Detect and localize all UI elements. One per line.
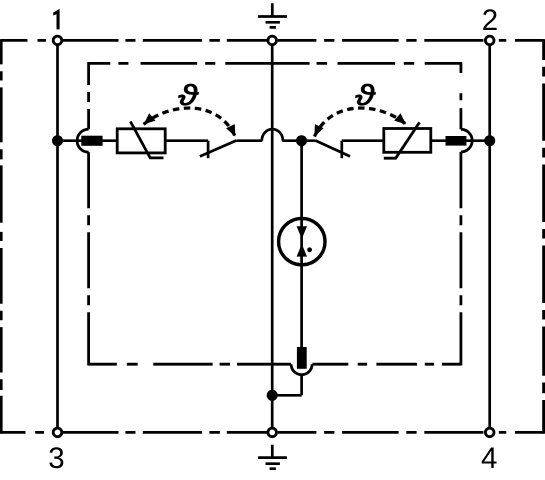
wire: right conductor from terminal 2 to terminal 4	[488, 45, 491, 428]
junction dot node 2 rail	[484, 135, 495, 146]
inner module boundary top edge (dash-dot)	[89, 62, 461, 65]
wire: gas discharge tube branch vertical	[300, 141, 303, 396]
varistor right body	[384, 129, 431, 153]
terminal 2 circle	[485, 36, 494, 45]
earth symbol top	[258, 3, 287, 27]
arrowhead right arc left end	[314, 124, 323, 137]
arrowhead left arc right end	[226, 124, 235, 137]
wire: varistor to switch fixed contact	[165, 139, 208, 142]
varistor left body	[117, 129, 165, 153]
arrowhead left arc left end	[144, 113, 156, 124]
gas discharge tube gas dot	[307, 247, 312, 252]
switch fixed contact stub left	[207, 141, 210, 159]
wire: main rail left section (node 1 to varistor)	[58, 139, 118, 142]
terminal 4 circle	[485, 428, 494, 437]
switch fixed contact stub right	[340, 141, 343, 159]
plug contact bar bottom	[297, 347, 307, 369]
svg-text:3: 3	[48, 442, 64, 475]
outer boundary bottom edge (dash-dot)	[1, 431, 543, 434]
svg-text:ϑ: ϑ	[178, 79, 199, 111]
svg-text:2: 2	[482, 4, 498, 37]
terminal 1 circle	[53, 36, 62, 45]
outer boundary top edge (dash-dot)	[1, 39, 543, 42]
plug contact bar left	[81, 136, 102, 146]
earth node circle bottom	[268, 428, 277, 437]
outer boundary left edge (dash-dot)	[0, 39, 3, 434]
plug-in disconnection arc left (border hop over wire)	[77, 129, 89, 152]
earth node circle top	[268, 36, 277, 45]
varistor left diagonal with tail	[130, 122, 163, 158]
inner module boundary bottom edge (dash-dot) with plug hop gap	[89, 363, 461, 366]
gas discharge tube circle	[279, 218, 325, 264]
wire hop over center conductor	[262, 129, 283, 141]
plug-in disconnection arc bottom (border hop over wire)	[291, 364, 312, 375]
wire: center PE conductor from top earth to bottom earth	[271, 45, 274, 428]
gas discharge tube lower arrow	[297, 244, 307, 257]
gas discharge tube upper arrow	[297, 226, 307, 239]
wire: left switch pivot to rail hop	[236, 139, 262, 142]
junction dot bottom branch on PE conductor	[267, 390, 278, 401]
wire: branch jog to center conductor	[272, 394, 301, 397]
outer boundary right edge (dash-dot)	[542, 39, 545, 434]
switch blade left (thermal disconnector)	[200, 141, 236, 157]
switch blade right (thermal disconnector)	[315, 141, 350, 157]
wire: right varistor to node 2	[431, 139, 490, 142]
label terminal 1	[53, 9, 59, 30]
thermal coupling dashed arc left	[144, 108, 236, 137]
thermal coupling dashed arc right	[314, 108, 406, 137]
svg-text:ϑ: ϑ	[355, 79, 376, 111]
arrowhead right arc right end	[394, 113, 406, 124]
wire: left conductor from terminal 1 to terminal 3	[56, 45, 59, 428]
svg-text:4: 4	[481, 442, 497, 475]
varistor right diagonal with tail	[384, 122, 420, 158]
earth symbol bottom	[258, 445, 287, 469]
junction dot center branch on rail	[296, 135, 307, 146]
plug-in disconnection arc right (border hop over wire)	[461, 129, 472, 152]
inner module boundary right edge (dash-dot, interrupted by plug arc)	[459, 62, 462, 365]
wire: right stub to varistor	[342, 139, 384, 142]
terminal 3 circle	[53, 428, 62, 437]
inner module boundary left edge (dash-dot, interrupted by plug arc)	[87, 62, 90, 365]
junction dot node 1 rail	[52, 135, 63, 146]
plug contact bar right	[446, 136, 467, 146]
wire: hop to center junction to right switch pivot	[282, 139, 315, 142]
